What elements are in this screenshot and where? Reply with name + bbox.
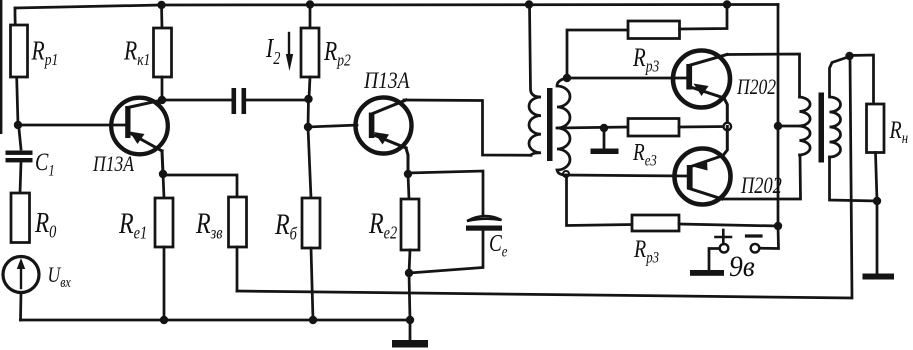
- plus sign: [716, 236, 732, 239]
- wire collector upper П202 to output primary top: [727, 54, 800, 97]
- capacitor C1: [19, 129, 21, 149]
- wire source bottom to bottom rail: [19, 293, 22, 321]
- resistor Rе3: [628, 119, 679, 137]
- capacitor Cе: [408, 171, 483, 214]
- node secondary bottom (small open circle): [563, 171, 569, 177]
- transistor П202 upper: [673, 51, 730, 108]
- resistor Rp3 lower: [632, 215, 679, 231]
- node emitters junction: [724, 123, 732, 131]
- node center tap ground: [600, 124, 608, 132]
- wire top supply rail: [15, 5, 778, 9]
- wire primary center tap to supply: [778, 125, 800, 128]
- resistor Rе1: [163, 174, 164, 198]
- wire base lead T2: [308, 125, 357, 127]
- wire collector T1 to coupling cap: [162, 99, 232, 102]
- node transformer primary top on rail: [525, 0, 533, 8]
- transformer Tr1 core: [547, 88, 553, 161]
- wire bottom ground rail: [21, 319, 412, 322]
- resistor R0: [11, 193, 30, 243]
- transformer Tr2 core: [819, 93, 825, 163]
- resistor Rе2: [408, 174, 409, 199]
- transistor П202 lower: [675, 149, 731, 205]
- node Rб bottom: [309, 316, 317, 324]
- node collector T1: [158, 96, 166, 104]
- wire collector lower П202 to output primary bottom: [722, 155, 801, 199]
- ground battery: [690, 270, 724, 276]
- transformer Tr2 primary winding: [800, 97, 811, 155]
- node Rp2 top on rail: [306, 0, 314, 8]
- node output bottom: [873, 197, 881, 205]
- transistor T1 П13А: [111, 98, 168, 155]
- page-edge artifact line: [0, 0, 2, 134]
- battery 9в: [760, 226, 779, 249]
- wire down to base node: [307, 99, 310, 127]
- resistor Rp2: [309, 5, 312, 29]
- transistor T2 П13А: [356, 98, 412, 154]
- ground center tap: [603, 128, 606, 148]
- svg-text:П13А: П13А: [363, 68, 410, 94]
- svg-text:9в: 9в: [729, 250, 755, 283]
- node Rp3 upper on rail: [723, 0, 731, 8]
- wire secondary top to base of upper П202: [567, 77, 686, 80]
- ground output: [876, 201, 879, 274]
- resistor Rб: [308, 127, 311, 198]
- node base of first transistor (junction dot): [14, 121, 22, 129]
- resistor Rк1: [160, 5, 163, 28]
- resistor Rн: [867, 104, 885, 153]
- transformer Tr2 secondary winding: [830, 57, 850, 158]
- node Rк1 top on rail: [157, 1, 165, 9]
- svg-text:П13А: П13А: [92, 152, 135, 176]
- wire left column drop from rail: [15, 8, 18, 125]
- wire output top to Rн: [850, 55, 874, 104]
- node secondary top: [563, 74, 571, 82]
- resistor Rp3 upper: [628, 21, 680, 39]
- transformer Tr1 secondary winding: [557, 78, 570, 175]
- wire base lead T1: [18, 124, 126, 127]
- node emitter T1: [159, 170, 167, 178]
- source Uвх (input source circle with up arrow): [3, 257, 39, 293]
- wire collector T2 to transformer primary: [404, 100, 531, 155]
- node base T2: [304, 123, 312, 131]
- wire secondary bottom lead to output node: [830, 157, 878, 201]
- arrow I2: [288, 33, 290, 58]
- wire negative rail drop: [777, 5, 780, 227]
- wire center tap to Rе3: [557, 127, 628, 128]
- capacitor coupling C2: [232, 88, 237, 114]
- node output top: [845, 52, 853, 60]
- ground main: [409, 320, 412, 341]
- transformer Tr1 primary winding: [529, 5, 541, 156]
- wire secondary bottom to base of lower П202: [566, 175, 687, 176]
- wire emitter T1 to Rзв: [163, 175, 237, 197]
- svg-text:П202: П202: [736, 75, 776, 99]
- resistor Rp1: [11, 25, 28, 77]
- minus sign: [747, 234, 762, 237]
- node primary center tap: [774, 122, 782, 130]
- node emitter T2: [404, 170, 412, 178]
- node Rе1 bottom: [160, 316, 168, 324]
- node battery negative junction: [774, 222, 782, 230]
- node ground junction: [406, 316, 414, 324]
- resistor Rзв: [229, 197, 247, 247]
- wire secondary bottom down to lower Rp3: [567, 177, 633, 226]
- node Cе bottom junction: [405, 269, 413, 277]
- svg-text:П202: П202: [740, 172, 782, 199]
- wire feedback line to output: [237, 57, 852, 298]
- node coupling cap junction: [304, 95, 312, 103]
